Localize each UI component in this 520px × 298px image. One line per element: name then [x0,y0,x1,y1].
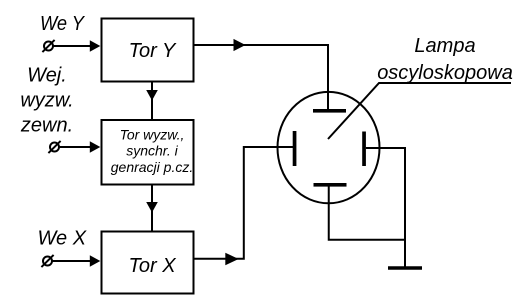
arrowhead into Tor wyzw. box [90,141,101,152]
box U1 Tor Y [102,19,194,82]
arrowhead into Tor X [90,255,101,266]
label We Y [40,13,86,35]
wire Tor Y to trigger box [151,83,153,120]
wire We Y input [53,45,92,47]
wire Wej. input [59,146,92,148]
svg-text:Tor wyzw.,: Tor wyzw., [120,127,185,143]
box U2 Tor wyzw. synchr. [102,120,194,185]
terminal input We Y [42,40,54,52]
svg-text:synchr. i: synchr. i [126,143,178,159]
svg-text:Lampa: Lampa [414,35,475,57]
wire We X input [52,260,92,262]
svg-text:genracji p.cz.: genracji p.cz. [111,159,193,175]
label Wej. wyzw. zewn. [20,65,74,137]
svg-text:zewn.: zewn. [20,115,73,137]
svg-text:Tor X: Tor X [128,255,176,277]
arrowhead on X wire [225,253,238,266]
wire right X-plate to ground [366,148,405,267]
svg-text:Wej.: Wej. [27,65,67,87]
arrowhead down to Tor X [146,202,158,213]
wire trigger box to Tor X [151,186,153,231]
terminal input We X [41,255,53,267]
wire Tor Y output to top Y-plate [195,45,329,109]
left X deflection plate [293,131,297,166]
svg-text:We Y: We Y [40,13,86,35]
CRT tube circle [278,92,380,203]
wire bottom Y-plate to ground rail [329,187,405,240]
leader line to CRT [328,83,511,139]
label We X [38,228,87,250]
label Lampa oscyloskopowa [377,35,513,84]
terminal input Wej. wyzw. [48,141,60,153]
svg-text:wyzw.: wyzw. [20,90,73,112]
box U3 Tor X [102,232,194,294]
wire Tor X output to left X-plate [195,147,295,259]
arrowhead into Tor Y [90,40,101,51]
svg-text:We X: We X [38,228,87,250]
right X deflection plate [362,132,366,167]
ground symbol [388,266,422,270]
svg-text:Tor Y: Tor Y [129,40,177,62]
arrowhead down to trigger box [146,90,158,101]
bottom Y deflection plate [314,183,347,187]
svg-text:oscyloskopowa: oscyloskopowa [377,62,513,84]
arrowhead on Y wire [234,39,246,51]
top Y deflection plate [313,109,346,113]
